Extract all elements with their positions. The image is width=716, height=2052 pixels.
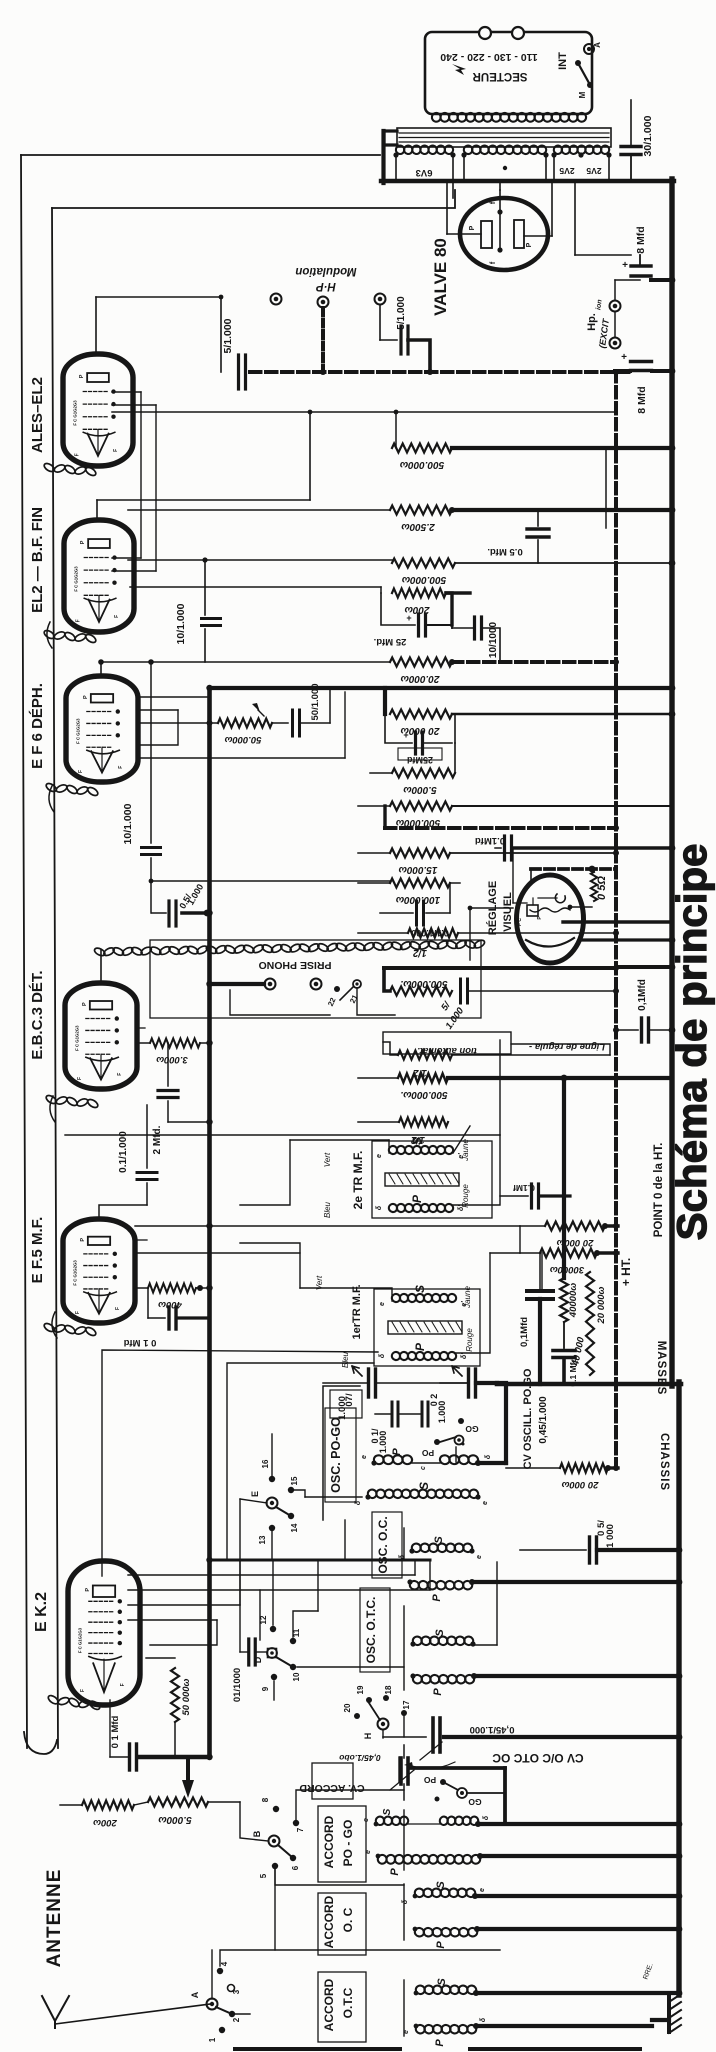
- wire - EK2 grid to 1er MF: [102, 1350, 378, 1576]
- capacitor trimmer osc: [440, 1366, 497, 1397]
- transformer T1 rectifier filament winding: [461, 145, 548, 181]
- resistor 500.000 AVC line: [384, 968, 616, 996]
- resistor 5.000 cathode EF6: [370, 714, 455, 795]
- resistor 400 cathode EF5: [137, 1284, 209, 1311]
- resistor 20.000 decoupling a: [98, 658, 616, 685]
- svg-text:18: 18: [384, 1685, 393, 1694]
- switch D contacts: [253, 1615, 301, 1691]
- capacitor 50/1.000: [272, 684, 330, 736]
- braid - EBC3 heater: [45, 1094, 99, 1109]
- svg-text:10/1.000: 10/1.000: [175, 603, 187, 644]
- svg-text:500.000ω.: 500.000ω.: [400, 978, 447, 989]
- wire - chassis dashed bus vertical: [614, 371, 618, 1468]
- capacitor 8 Mfd second: [615, 352, 672, 414]
- switch PO-GO osc: [421, 1418, 478, 1458]
- transformer T1 mains box: [425, 32, 592, 114]
- wire - phono frame: [230, 988, 395, 1015]
- svg-text:500.000ω: 500.000ω: [401, 574, 446, 585]
- svg-text:δ: δ: [483, 1815, 490, 1820]
- svg-text:A: A: [190, 1991, 200, 1998]
- label CV O/C OTC OC: [404, 1751, 584, 1769]
- coil accord OTC P: [403, 2017, 652, 2047]
- svg-text:F: F: [77, 1077, 83, 1080]
- label INT: [557, 52, 569, 70]
- capacitor 0 5/1.000 osc: [520, 1520, 679, 1563]
- wire - EK2 top feed: [210, 1559, 431, 1562]
- capacitor 10/1.000 first: [175, 557, 221, 662]
- wire - EF6 plate branch: [383, 688, 387, 714]
- svg-text:δ: δ: [399, 1554, 406, 1559]
- svg-text:8 Mfd: 8 Mfd: [636, 386, 648, 413]
- resistor 1/2 meg third: [358, 1118, 448, 1146]
- terminal HP output: [375, 294, 386, 341]
- svg-text:e: e: [376, 1154, 383, 1158]
- switch A contacts: [190, 1961, 241, 2042]
- svg-text:S: S: [433, 1536, 445, 1544]
- svg-text:P: P: [85, 1588, 91, 1592]
- label CV OSCILL PO.GO: [522, 1368, 549, 1469]
- svg-text:P: P: [434, 2039, 446, 2047]
- rectifier VALVE 80: [447, 181, 552, 270]
- wire - valve filament lead: [499, 183, 501, 190]
- svg-text:50/1.000: 50/1.000: [310, 684, 321, 721]
- svg-text:A: A: [593, 42, 602, 48]
- svg-text:13: 13: [258, 1535, 267, 1544]
- svg-text:Modulation: Modulation: [295, 265, 356, 277]
- resistor 5.000 EK2: [134, 1798, 208, 1826]
- svg-text:D: D: [253, 1656, 263, 1663]
- terminal prise phono right: [311, 979, 322, 990]
- svg-text:6V3: 6V3: [416, 167, 433, 178]
- potentiometer 50.000: [140, 703, 272, 745]
- svg-text:01/1000: 01/1000: [232, 1668, 243, 1702]
- capacitor 5/1.000 detector: [439, 979, 616, 1031]
- terminal prise phono left: [265, 979, 276, 990]
- svg-text:2e TR M.F.: 2e TR M.F.: [351, 1151, 365, 1210]
- svg-text:+: +: [621, 352, 627, 363]
- switch B contacts: [252, 1797, 305, 1878]
- wire - thick drop left of core: [381, 131, 385, 183]
- wire - D contact 11 up: [293, 1560, 318, 1637]
- label VALVE 80: [431, 238, 450, 316]
- wire - indicator plate line: [563, 920, 672, 923]
- svg-text:O. C: O. C: [341, 1907, 355, 1932]
- svg-text:EL2 — B.F. FIN: EL2 — B.F. FIN: [29, 507, 46, 613]
- capacitor CV ACCORD variable: [299, 1753, 414, 1799]
- wire - osc box frame: [345, 1520, 404, 1690]
- resistor 3.000 cathode EBC3: [140, 1039, 209, 1066]
- svg-text:F C: F C: [517, 918, 523, 926]
- wire - 1er MF leads: [240, 1243, 490, 1353]
- svg-text:GO: GO: [465, 1424, 479, 1434]
- resistor 500.000 AVC second: [358, 1074, 672, 1101]
- wire - accord box frames: [403, 1810, 405, 2036]
- svg-text:2V5: 2V5: [586, 166, 601, 176]
- svg-text:P: P: [80, 1238, 86, 1242]
- svg-text:110 - 130 - 220 - 240: 110 - 130 - 220 - 240: [440, 51, 538, 63]
- resistor 50.000 osc grid: [146, 1658, 192, 1757]
- coil osc OTC S: [410, 1562, 497, 1647]
- svg-text:10/1.000: 10/1.000: [122, 803, 134, 844]
- svg-text:19: 19: [356, 1685, 365, 1694]
- resistor 15.000: [358, 849, 616, 876]
- svg-text:F: F: [75, 453, 81, 456]
- svg-text:ACCORD: ACCORD: [322, 1895, 336, 1948]
- svg-text:F: F: [114, 615, 120, 618]
- svg-text:30/1.000: 30/1.000: [642, 115, 654, 156]
- svg-text:2: 2: [232, 2017, 241, 2022]
- svg-text:17: 17: [402, 1700, 411, 1709]
- svg-text:e: e: [479, 1888, 486, 1892]
- svg-text:S: S: [434, 1629, 446, 1637]
- transformer 1er TR MF: [315, 1275, 480, 1368]
- svg-text:E F 6 DÉPH.: E F 6 DÉPH.: [29, 683, 46, 769]
- wire - screen line: [112, 410, 616, 415]
- junction dots dashed bus: [613, 369, 619, 1471]
- screw hole left: [479, 27, 491, 39]
- svg-text:f: f: [490, 261, 497, 264]
- arrow - AVC feed: [182, 1757, 194, 1798]
- svg-text:0 1 Mfd: 0 1 Mfd: [123, 1337, 156, 1348]
- switch H contacts: [343, 1685, 411, 1739]
- wire - HT top bus: [381, 179, 674, 183]
- junction dots lower bus: [676, 1381, 683, 1997]
- tube EF6: [66, 676, 138, 782]
- coil osc PO-GO S: [355, 1482, 489, 1505]
- svg-text:14: 14: [290, 1523, 299, 1532]
- svg-text:P: P: [432, 1688, 444, 1696]
- label Hp EXCITion: [586, 299, 611, 349]
- svg-text:MASSES: MASSES: [655, 1341, 667, 1396]
- svg-text:5/1.000: 5/1.000: [396, 296, 407, 330]
- label EBC3 DET: [29, 970, 46, 1059]
- wire - EK2 grid leads: [128, 1560, 430, 1645]
- coil osc PO-GO P: [361, 1448, 506, 1470]
- capacitor 01/1000 ant: [232, 1560, 266, 1702]
- label band bottom curve: [24, 1732, 57, 1754]
- svg-text:50 000ω: 50 000ω: [181, 1678, 192, 1715]
- svg-text:CHASSIS: CHASSIS: [658, 1433, 670, 1491]
- svg-text:GO: GO: [468, 1797, 482, 1807]
- resistor 500.000 AF plate: [392, 559, 672, 586]
- wire - right bus lower: [676, 1382, 681, 1995]
- svg-text:2 Mfd.: 2 Mfd.: [152, 1125, 163, 1154]
- wire - EBC3 grid left: [65, 1028, 500, 1135]
- tube EBC3: [65, 983, 137, 1089]
- switch PO-GO accord: [410, 1768, 505, 1824]
- svg-text:e: e: [476, 1555, 483, 1559]
- resistor 500.000 grid EF6: [358, 802, 672, 829]
- svg-text:0,1Mfd: 0,1Mfd: [637, 979, 648, 1011]
- svg-text:PRISE PHONO: PRISE PHONO: [259, 959, 332, 971]
- svg-text:E.B.C.3 DÉT.: E.B.C.3 DÉT.: [29, 970, 46, 1059]
- braid - EK2 heater: [47, 1694, 101, 1711]
- svg-text:e: e: [482, 1501, 489, 1505]
- svg-text:E K.2: E K.2: [33, 1592, 50, 1632]
- svg-text:F C G1G2G3: F C G1G2G3: [76, 718, 81, 744]
- svg-text:δ: δ: [480, 2017, 487, 2022]
- wire - EL2b plate lead: [97, 412, 310, 521]
- svg-text:M: M: [578, 91, 587, 98]
- svg-text:+: +: [622, 260, 628, 271]
- svg-text:OSC. O.T.C.: OSC. O.T.C.: [364, 1597, 378, 1664]
- svg-text:POINT 0 de la HT.: POINT 0 de la HT.: [653, 1143, 665, 1238]
- box - regulation automat: [383, 1032, 511, 1056]
- wire - E contact wires: [272, 1434, 362, 1560]
- svg-text:H: H: [363, 1733, 373, 1740]
- svg-text:Schéma de principe: Schéma de principe: [668, 844, 715, 1241]
- svg-text:10/1000: 10/1000: [488, 621, 499, 658]
- wire - EF5 links: [135, 1226, 520, 1253]
- svg-text:P: P: [410, 1194, 424, 1203]
- svg-text:P: P: [80, 540, 86, 544]
- capacitor 0.1/1.000 osc: [370, 1402, 420, 1453]
- svg-text:1.000: 1.000: [437, 1401, 447, 1424]
- svg-text:20.000ω: 20.000ω: [400, 673, 441, 684]
- svg-text:0.1Mfd: 0.1Mfd: [475, 835, 505, 846]
- resistor 05 ohm indicator: [591, 869, 608, 901]
- label OSC OC: [372, 1512, 402, 1578]
- svg-text:P: P: [79, 374, 85, 378]
- resistor 40.000 vertical: [560, 1278, 579, 1348]
- resistor 1/2 meg first: [358, 929, 616, 959]
- svg-text:9: 9: [261, 1686, 270, 1691]
- svg-text:22: 22: [326, 996, 338, 1007]
- capacitor 0 1 Mfd EK2: [110, 1700, 137, 1770]
- svg-text:S: S: [435, 1881, 447, 1889]
- terminal HP modulation mid: [318, 297, 329, 371]
- wire - cv accord leads: [403, 1745, 405, 1800]
- svg-text:P: P: [389, 1868, 401, 1876]
- svg-text:Bleu: Bleu: [323, 1201, 332, 1218]
- svg-text:50.000ω: 50.000ω: [224, 734, 261, 745]
- svg-text:O.T.C: O.T.C: [341, 1987, 355, 2018]
- svg-text:Rouge: Rouge: [461, 1184, 470, 1208]
- box - prise phono panel: [150, 940, 481, 1018]
- label SECTEUR: [452, 64, 527, 82]
- transformer T1 HT winding 2V5: [551, 145, 611, 181]
- wire - A pole feed: [211, 1950, 213, 1999]
- capacitor 0.1/1.000 det: [380, 883, 460, 938]
- box - 0.7 label frame: [330, 1390, 362, 1418]
- capacitor 0,1Mfd decoupl a: [519, 1253, 553, 1384]
- label 110-130-220-240: [440, 51, 538, 63]
- capacitor 0.1Mfd coupling: [500, 1183, 570, 1208]
- svg-text:VALVE 80: VALVE 80: [431, 238, 450, 316]
- svg-text:F: F: [113, 449, 119, 452]
- tube EK2: [68, 1561, 140, 1705]
- wire - EF6 grid lines: [138, 692, 345, 758]
- svg-text:E: E: [250, 1491, 260, 1497]
- title Schema de principe: [668, 844, 715, 1241]
- resistor 20.000 plate EF6: [390, 710, 672, 737]
- svg-text:S: S: [382, 1808, 393, 1815]
- wire - band switch column: [260, 1447, 456, 1640]
- wire - bus top corner: [210, 685, 676, 692]
- label EK2: [33, 1592, 50, 1632]
- svg-text:PO: PO: [423, 1775, 436, 1785]
- svg-text:Ligne de régula -: Ligne de régula -: [529, 1041, 605, 1052]
- capacitor 10/1000 second: [452, 617, 500, 662]
- svg-text:F C G1G2G3: F C G1G2G3: [73, 1260, 78, 1286]
- svg-text:PO - GO: PO - GO: [341, 1820, 355, 1867]
- tube EF5: [63, 1219, 135, 1323]
- svg-text:1.000: 1.000: [378, 1431, 388, 1454]
- label CHASSIS: [658, 1433, 670, 1491]
- svg-text:F: F: [120, 1683, 126, 1686]
- svg-text:0.5 Mfd.: 0.5 Mfd.: [487, 546, 522, 557]
- ground chassis: [642, 1962, 681, 2033]
- svg-text:0.1Mf: 0.1Mf: [513, 1183, 535, 1193]
- svg-text:F: F: [76, 619, 82, 622]
- label EL2 BF FIN: [29, 507, 46, 613]
- transformer T1 heater winding 6V3: [393, 145, 455, 198]
- svg-text:F: F: [80, 1689, 86, 1692]
- wire - HT right bus: [669, 179, 674, 1386]
- terminal HP modulation left: [271, 294, 282, 305]
- tube EL2 lower: [64, 520, 134, 632]
- svg-text:δ: δ: [355, 1500, 362, 1505]
- tube EL2 upper: [63, 354, 133, 466]
- switch E wavechange: [240, 1459, 305, 1560]
- wire - label band vertical: [52, 208, 58, 1748]
- wire - 2e MF leads: [240, 1040, 500, 1205]
- capacitor 0.5 Mfd: [487, 510, 549, 563]
- svg-text:VISUEL: VISUEL: [502, 892, 514, 932]
- resistor 2.500 output: [128, 506, 672, 533]
- svg-text:1 000: 1 000: [605, 1524, 616, 1548]
- terminal Hp excitation upper: [610, 280, 641, 312]
- junction dots right bus: [669, 178, 676, 1034]
- svg-text:OSC. PO-GO: OSC. PO-GO: [329, 1417, 343, 1493]
- svg-text:F: F: [75, 1311, 81, 1314]
- svg-text:CV. ACCORD: CV. ACCORD: [299, 1782, 365, 1794]
- svg-text:500.000ω: 500.000ω: [399, 459, 444, 470]
- resistor 20.000 osc: [506, 1464, 618, 1491]
- tube indicator REGLAGE VISUEL: [517, 875, 593, 963]
- svg-text:0,45/1.obo: 0,45/1.obo: [339, 1753, 381, 1763]
- wire - HT bus 1384: [497, 1382, 681, 1387]
- svg-text:ion: ion: [595, 299, 603, 310]
- capacitor 0.1Mfd cathode EF5: [123, 1285, 209, 1348]
- svg-text:5/: 5/: [439, 999, 453, 1013]
- label ligne de regulation: [529, 1041, 605, 1052]
- label OSC OTC: [360, 1588, 390, 1672]
- svg-text:ALES–EL2: ALES–EL2: [29, 377, 46, 453]
- capacitor 25Mfd second: [385, 714, 452, 765]
- braid - AF shielded lead: [93, 939, 485, 958]
- wire - inner border top: [52, 190, 455, 208]
- svg-text:10: 10: [292, 1672, 301, 1681]
- wire - line y828 dashed: [385, 806, 616, 828]
- svg-text:δ: δ: [402, 1899, 409, 1904]
- svg-text:2.500ω: 2.500ω: [401, 521, 436, 532]
- svg-text:3: 3: [232, 1989, 241, 1994]
- capacitor 25 Mfd first: [374, 593, 452, 647]
- svg-text:Jaune: Jaune: [461, 1139, 470, 1162]
- terminal Hp excitation lower: [610, 312, 621, 349]
- wire - outer border left: [21, 155, 27, 1748]
- label REGLAGE VISUEL: [486, 881, 514, 935]
- svg-text:H·P: H·P: [316, 280, 336, 292]
- svg-text:20 000ω: 20 000ω: [556, 1237, 594, 1248]
- svg-text:1: 1: [208, 2037, 217, 2042]
- braid - EF5 heater: [43, 1322, 97, 1337]
- braid - EF6 heater: [45, 782, 99, 797]
- svg-text:200ω: 200ω: [93, 1817, 118, 1828]
- wire - osc thick corner: [497, 1383, 506, 1463]
- svg-text:8: 8: [261, 1797, 270, 1802]
- svg-text:INT: INT: [557, 52, 569, 70]
- wire - EK2 grid to osc: [227, 1363, 374, 1560]
- capacitor 30/1.000: [621, 100, 654, 181]
- wire - EBC3 plate lead: [100, 950, 102, 984]
- svg-text:40000ω: 40000ω: [568, 1283, 579, 1318]
- wire - valve cathode to filter: [575, 183, 631, 255]
- label H-P Modulation: [295, 265, 356, 292]
- svg-text:F C G1G2G3: F C G1G2G3: [75, 1025, 80, 1051]
- capacitor 5/1.000 output upper: [222, 318, 246, 389]
- svg-text:P: P: [83, 695, 89, 699]
- svg-text:CV O/C OTC OC: CV O/C OTC OC: [492, 1751, 584, 1765]
- wire - main left bus: [207, 688, 212, 1757]
- svg-text:P: P: [413, 1342, 427, 1351]
- svg-text:0,45/1.000: 0,45/1.000: [470, 1724, 515, 1735]
- resistor 1/2 meg second: [383, 1042, 610, 1078]
- label EF6 DEPH: [29, 683, 46, 769]
- wire - B pole feed: [208, 1802, 268, 1841]
- wire - D contact wires: [273, 1560, 404, 1737]
- wire - vertical link 448-528: [605, 448, 607, 528]
- svg-text:20: 20: [343, 1703, 352, 1712]
- label PRISE PHONO: [259, 959, 332, 971]
- svg-text:e: e: [361, 1455, 368, 1459]
- svg-text:16: 16: [261, 1459, 270, 1468]
- resistor 30.000 divider b: [520, 1249, 618, 1276]
- capacitor 0.1 Mfd decoupl b: [553, 1351, 578, 1387]
- capacitor 0,1Mfd top: [616, 979, 672, 1042]
- wire - accord feeds: [275, 1790, 404, 1885]
- label ACCORD OC: [318, 1893, 366, 1955]
- svg-text:P: P: [431, 1594, 443, 1602]
- svg-text:1.000: 1.000: [185, 882, 205, 907]
- transformer T1 primary winding: [431, 112, 587, 122]
- wire - EL2a plate lead: [96, 295, 223, 354]
- svg-text:δ: δ: [379, 1353, 386, 1358]
- svg-text:20 000ω: 20 000ω: [596, 1286, 607, 1324]
- svg-text:F C G1G2G3: F C G1G2G3: [73, 566, 78, 592]
- svg-text:7: 7: [296, 1827, 305, 1832]
- svg-text:S: S: [410, 1137, 424, 1145]
- transformer 2e TR MF: [323, 1137, 492, 1218]
- resistor 20.000-40.000 chain: [570, 1272, 607, 1375]
- svg-text:15.000ω: 15.000ω: [398, 864, 438, 875]
- capacitor CV O/C variable: [383, 1718, 679, 1760]
- svg-text:30000ω: 30000ω: [550, 1264, 584, 1275]
- wire - AVC dashed to indicator: [531, 866, 616, 880]
- wire - visual line: [583, 938, 672, 941]
- wire - divider feeds: [490, 1226, 542, 1291]
- wire - phono bus: [209, 982, 264, 986]
- capacitor 0.7/1000 padder: [323, 1366, 468, 1420]
- coil accord PO-GO P long: [365, 1850, 679, 1876]
- svg-text:S: S: [413, 1285, 427, 1293]
- label ACCORD PO-GO: [318, 1806, 366, 1882]
- svg-text:1erTR M.F.: 1erTR M.F.: [351, 1284, 363, 1339]
- svg-text:4: 4: [220, 1961, 229, 1966]
- junction dots left bus: [206, 685, 212, 1760]
- svg-text:ACCORD: ACCORD: [322, 1815, 336, 1868]
